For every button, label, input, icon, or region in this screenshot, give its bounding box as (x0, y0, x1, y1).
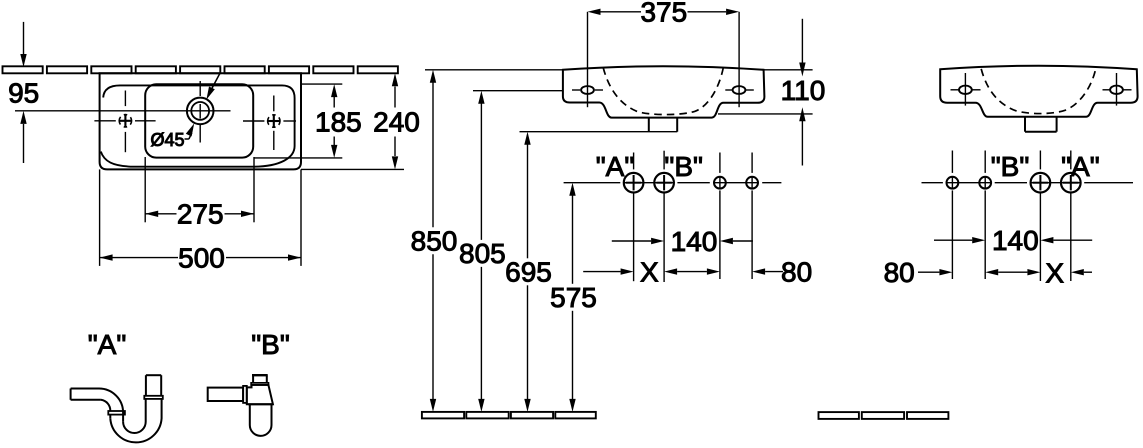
dim 805 (459, 91, 506, 412)
basin inner rim (plan) (101, 85, 295, 166)
svg-text:"B": "B" (251, 329, 290, 360)
dim diameter 45 text (151, 130, 185, 150)
bowl dashed outline (middle) (603, 68, 723, 115)
dim 140 (right) (934, 225, 1092, 256)
drain stub (middle) (649, 118, 677, 132)
svg-text:"A": "A" (596, 151, 635, 182)
svg-text:375: 375 (640, 0, 687, 28)
dim 80 and X (right) (884, 257, 1092, 289)
bowl (plan) (145, 84, 253, 157)
mounting hole right (middle) (725, 62, 754, 107)
svg-text:275: 275 (177, 199, 224, 230)
dim 500 extension lines (100, 169, 301, 266)
floor hatching (right) (819, 412, 949, 419)
svg-text:X: X (640, 256, 659, 287)
hole center vlines (right) (952, 151, 1070, 282)
label A (middle) (596, 151, 635, 182)
basin outline (front view right) (940, 66, 1137, 117)
dim 575 (550, 183, 597, 412)
dim 185 (315, 84, 362, 158)
drain stub (right) (1025, 117, 1057, 132)
dim 695 (505, 132, 552, 412)
basin outer outline (plan) (100, 73, 301, 169)
dim 275 extension lines (145, 157, 254, 222)
drain hole circles (187, 98, 214, 125)
dim 95 text (8, 78, 39, 109)
svg-text:"B": "B" (991, 151, 1030, 182)
850 reference line (425, 69, 813, 71)
svg-text:805: 805 (459, 238, 506, 269)
dim 110 (718, 19, 825, 166)
695 reference line (520, 131, 678, 133)
dim 375 extension lines (588, 12, 740, 62)
supply hole 1 (right) (947, 177, 959, 189)
dim 95 arrow lines (20, 22, 26, 163)
svg-text:Ø45: Ø45 (151, 130, 185, 150)
basin outline (front view middle) (563, 66, 765, 117)
label A (right) (1061, 151, 1100, 182)
label B (right) (991, 151, 1030, 182)
dim 850 (411, 70, 458, 412)
label B (middle) (664, 151, 703, 182)
drain hole B (right) (1031, 173, 1051, 193)
svg-text:"A": "A" (1061, 151, 1100, 182)
svg-text:95: 95 (8, 78, 39, 109)
drain hole B (middle) (654, 173, 674, 193)
575 reference line (hole row) (564, 182, 782, 184)
svg-text:140: 140 (992, 225, 1039, 256)
dim X and 80 (middle) (583, 256, 812, 287)
dim 140 (middle) (612, 226, 753, 257)
drain leader arrows (diameter 45) (185, 74, 220, 140)
drain hole A (middle) (624, 173, 644, 193)
dim 185 reference ticks (254, 84, 342, 158)
svg-text:80: 80 (884, 257, 915, 288)
dim 275 (145, 199, 254, 230)
mounting hole left (middle) (572, 62, 603, 107)
svg-text:140: 140 (671, 226, 718, 257)
805 reference line (473, 90, 563, 92)
95 reference line (15, 110, 231, 112)
svg-text:110: 110 (781, 75, 826, 106)
mounting hole left (right view) (951, 73, 981, 106)
svg-text:185: 185 (315, 107, 362, 138)
mounting hole right (right view) (1103, 73, 1132, 106)
svg-text:575: 575 (550, 282, 597, 313)
hole center vlines (middle) (634, 151, 753, 282)
svg-text:850: 850 (411, 226, 458, 257)
trap B (bottle trap) (208, 375, 273, 436)
svg-text:500: 500 (178, 242, 225, 273)
label B (trap) (251, 329, 290, 360)
dim 375 (588, 0, 740, 28)
supply hole 1 (middle) (714, 177, 726, 189)
svg-text:"B": "B" (664, 151, 703, 182)
label A (trap) (88, 329, 127, 360)
floor hatching (middle) (422, 412, 596, 419)
svg-text:X: X (1045, 257, 1064, 288)
dim 500 (100, 242, 301, 273)
svg-text:240: 240 (373, 107, 420, 138)
svg-text:"A": "A" (88, 329, 127, 360)
supply hole 2 (middle) (746, 177, 758, 189)
dim 240 reference tick (301, 168, 404, 170)
bowl dashed outline (right) (981, 69, 1095, 114)
svg-text:695: 695 (505, 257, 552, 288)
drain center line (199, 81, 201, 143)
tap hole right (plan) (243, 96, 296, 151)
trap A (P-trap) (71, 375, 163, 442)
svg-text:80: 80 (781, 257, 812, 288)
wall hatching (plan view) (3, 66, 398, 73)
supply hole 2 (right) (979, 177, 991, 189)
drain hole A (right) (1061, 173, 1081, 193)
tap hole left (plan) (94, 91, 155, 153)
hole row line (right) (922, 182, 1134, 184)
dim 240 (373, 73, 420, 169)
